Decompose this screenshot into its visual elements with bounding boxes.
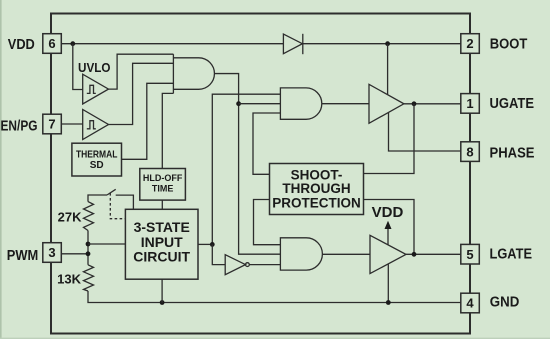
- svg-text:CIRCUIT: CIRCUIT: [133, 249, 190, 265]
- wire inverter to AND3: [249, 264, 280, 266]
- wire 13K to ground rail: [88, 291, 461, 303]
- wire UGATE feedback to shoot-through: [364, 104, 415, 174]
- node 3-state output: [210, 242, 215, 247]
- hysteresis symbol UVLO: [87, 85, 96, 93]
- svg-text:3: 3: [48, 245, 55, 260]
- wire PWM node to 3-state circuit: [88, 243, 125, 245]
- resistor R2 13K zigzag: [84, 265, 94, 291]
- svg-text:7: 7: [48, 117, 55, 132]
- wire PWM signal to AND2 input: [212, 94, 280, 244]
- pin 8 PHASE: [461, 142, 480, 162]
- svg-text:3-STATE: 3-STATE: [134, 219, 190, 235]
- hysteresis symbol EN/PG: [87, 121, 96, 129]
- svg-text:4: 4: [466, 296, 474, 311]
- resistor 27K: [88, 195, 107, 202]
- wire 3-state output to node: [198, 243, 212, 245]
- pin 4 GND: [461, 293, 480, 313]
- resistor R1 27K zigzag: [84, 202, 94, 231]
- wire HLD-OFF TIME to 3-state circuit: [161, 200, 163, 209]
- svg-text:HLD-OFF: HLD-OFF: [143, 173, 183, 183]
- diode D1: [283, 34, 302, 54]
- node UGATE junction: [412, 101, 417, 106]
- svg-text:THROUGH: THROUGH: [282, 181, 350, 196]
- wire HLD-OFF TIME to AND1: [162, 93, 173, 168]
- svg-text:PROTECTION: PROTECTION: [272, 196, 361, 211]
- node LGATE junction: [412, 252, 417, 257]
- svg-text:2: 2: [466, 36, 473, 51]
- wire 27K to PWM node: [87, 231, 89, 265]
- op-amp UVLO comparator: [83, 74, 109, 104]
- svg-text:GND: GND: [490, 294, 520, 310]
- buffer UGATE driver: [369, 84, 404, 123]
- wire AND3 to LGATE driver: [322, 253, 370, 255]
- pin 6 VDD: [43, 34, 62, 54]
- wire EN/PG pin to comparator: [61, 123, 82, 125]
- wire LGATE feedback to shoot-through: [364, 200, 415, 255]
- and-gate AND1 enable: [173, 54, 214, 93]
- inverter U2: [225, 255, 249, 275]
- label 3-STATE INPUT CIRCUIT text: [133, 219, 190, 264]
- svg-text:UGATE: UGATE: [490, 96, 535, 112]
- wire VDD rail (pin6 to diode): [61, 43, 283, 45]
- wire UGATE driver output to pin 1: [404, 103, 461, 105]
- svg-text:EN/PG: EN/PG: [1, 119, 38, 135]
- svg-text:UVLO: UVLO: [78, 60, 111, 75]
- node 3-state ground: [160, 300, 165, 305]
- buffer LGATE driver: [370, 235, 406, 273]
- wire BOOT to UGATE driver supply: [387, 44, 389, 95]
- dashed control line: [110, 193, 125, 219]
- wire node to inverter: [212, 244, 225, 264]
- node VDD junction: [70, 41, 75, 46]
- pin 2 BOOT: [461, 34, 480, 54]
- svg-text:SD: SD: [90, 160, 104, 171]
- block SHOOT-THROUGH PROTECTION: [270, 164, 364, 215]
- wire VDD to UVLO input: [73, 44, 83, 90]
- label HLD-OFF TIME text: [143, 173, 183, 194]
- block 3-STATE INPUT CIRCUIT: [125, 209, 198, 279]
- and-gate AND3 lower: [280, 238, 322, 270]
- svg-text:1: 1: [466, 96, 473, 111]
- pin 1 UGATE: [461, 94, 480, 114]
- svg-text:INPUT: INPUT: [141, 234, 183, 250]
- pin name labels: [1, 37, 535, 311]
- svg-text:5: 5: [466, 247, 473, 262]
- block HLD-OFF TIME: [140, 169, 186, 201]
- svg-text:LGATE: LGATE: [490, 246, 533, 262]
- pin 7 EN/PG: [43, 114, 62, 134]
- wire LGATE driver output to pin 5: [406, 253, 461, 255]
- wire EN/PG comparator output to AND1: [109, 63, 174, 124]
- pin boxes: [43, 34, 480, 313]
- svg-text:BOOT: BOOT: [490, 37, 528, 53]
- wire enable to AND2 input: [239, 103, 281, 105]
- pin 3 PWM: [43, 243, 62, 263]
- node 27K to 3-state: [86, 242, 91, 247]
- svg-text:6: 6: [48, 36, 55, 51]
- wire PWM pin to divider: [61, 253, 88, 255]
- wire shoot-through to AND2 input: [253, 113, 280, 174]
- IC boundary rectangle: [51, 14, 470, 334]
- wire THERMAL SD to AND1: [122, 83, 174, 159]
- VDD arrow to LGATE driver: [385, 221, 392, 245]
- pin 5 LGATE: [461, 244, 480, 264]
- svg-text:PHASE: PHASE: [490, 145, 535, 161]
- node BOOT junction: [385, 41, 390, 46]
- and-gate AND2 upper: [280, 88, 321, 119]
- op-amp EN/PG comparator: [83, 110, 109, 140]
- node PWM junction: [86, 251, 91, 256]
- wire AND1 output bus: [214, 74, 280, 255]
- wire 3-state circuit to ground: [161, 279, 163, 302]
- svg-text:27K: 27K: [58, 210, 82, 225]
- svg-text:8: 8: [466, 144, 473, 159]
- label SHOOT-THROUGH PROTECTION text: [272, 167, 361, 210]
- svg-text:TIME: TIME: [152, 184, 174, 194]
- svg-text:13K: 13K: [57, 271, 81, 286]
- node LGATE driver ground: [386, 300, 391, 305]
- wire LGATE driver to ground: [387, 264, 389, 302]
- svg-text:VDD: VDD: [8, 37, 35, 53]
- node AND1 output to AND2: [236, 101, 241, 106]
- wire shoot-through to AND3 input: [254, 200, 281, 245]
- wire UVLO output to AND1: [109, 54, 174, 89]
- switch arm: [107, 189, 116, 195]
- label THERMAL SD text: [76, 150, 118, 171]
- wire switch to 3-state circuit: [116, 195, 134, 209]
- svg-text:VDD: VDD: [372, 204, 404, 221]
- wire PHASE return: [389, 113, 461, 152]
- block THERMAL SD: [72, 143, 122, 176]
- wire AND2 to UGATE driver: [322, 103, 369, 105]
- svg-text:PWM: PWM: [7, 248, 39, 264]
- wire diode cathode to BOOT pin: [303, 43, 461, 45]
